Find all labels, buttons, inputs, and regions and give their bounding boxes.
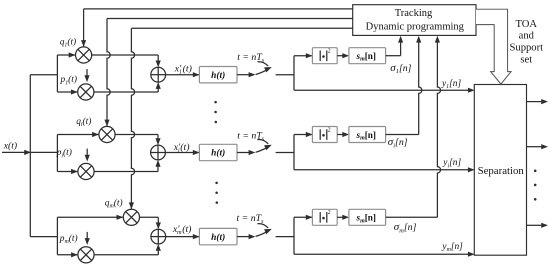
- node sampler output junction row 1: [293, 56, 295, 90]
- svg-text:Support: Support: [510, 42, 544, 53]
- wire: q_i output to summer top: [115, 135, 161, 146]
- svg-text:x′1(t): x′1(t): [174, 63, 192, 75]
- svg-text:2: 2: [328, 210, 331, 216]
- svg-text:Separation: Separation: [478, 165, 525, 177]
- svg-text:Tracking: Tracking: [395, 8, 433, 19]
- wire: p_1 output to summer bottom: [94, 82, 161, 92]
- wire: branch split vertical row m: [56, 217, 58, 255]
- wire: vertical drop into q multiplier row i: [104, 19, 110, 127]
- wire: Separation output: [527, 144, 549, 149]
- arrow p_i(t) control input (short down arrow): [85, 149, 90, 162]
- wire: into p_1 multiplier: [57, 89, 77, 94]
- node sampler output junction row i: [293, 135, 295, 170]
- svg-text:t = nTs: t = nTs: [237, 213, 265, 225]
- multiplier p_1 (circle with X): [78, 84, 94, 100]
- svg-text:x′i(t): x′i(t): [173, 142, 190, 154]
- block magnitude squared |.|^2 row m: [312, 209, 337, 225]
- wire: into q_i multiplier: [57, 132, 99, 137]
- ellipsis dots right of Separation: [534, 170, 537, 201]
- svg-text:2: 2: [328, 127, 331, 133]
- svg-text:qi(t): qi(t): [76, 116, 91, 128]
- svg-text:sm[n]: sm[n]: [356, 213, 376, 225]
- block magnitude squared |.|^2 row i: [312, 127, 337, 143]
- wire: |.|^2 to s_m[n] row i: [337, 132, 349, 137]
- block Tracking / Dynamic programming: [353, 5, 476, 36]
- svg-text:p1(t): p1(t): [60, 74, 78, 86]
- wire: into p_i multiplier: [57, 169, 78, 174]
- arrow p_1(t) control input (short down arrow): [84, 69, 89, 82]
- wire: into magnitude-squared block row m: [294, 215, 313, 220]
- arrow p_m(t) control input (short down arrow): [85, 232, 90, 245]
- wire: into q_m multiplier: [57, 215, 123, 220]
- wire: y_i[n] into Separation: [294, 167, 475, 172]
- multiplier p_m (circle with X): [78, 247, 94, 263]
- svg-text:y1[n]: y1[n]: [441, 79, 461, 90]
- wire: into p_m multiplier: [57, 252, 78, 257]
- svg-text:TOA: TOA: [516, 19, 538, 30]
- svg-text:pi(t): pi(t): [56, 147, 72, 159]
- svg-text:x(t): x(t): [3, 140, 17, 151]
- svg-text:h(t): h(t): [211, 148, 225, 159]
- svg-text:sm[n]: sm[n]: [356, 130, 376, 142]
- wire: input distribution bus: [29, 75, 31, 237]
- label TOA and Support set: [510, 19, 544, 65]
- svg-text:ym[n]: ym[n]: [441, 242, 463, 253]
- wire: Tracking output 2 horizontal run: [107, 18, 353, 20]
- block matched filter s_m[n] row m: [349, 209, 386, 225]
- summer row m (circle with +): [151, 229, 166, 244]
- svg-text:t = nTs: t = nTs: [237, 130, 265, 142]
- svg-text:σi[n]: σi[n]: [388, 136, 408, 149]
- svg-text:t = nTs: t = nTs: [237, 52, 265, 64]
- wire: bus branch row m: [30, 236, 57, 238]
- wire: Tracking output 3 horizontal run: [131, 27, 352, 29]
- summer row 1 (circle with +): [151, 67, 166, 82]
- wire: into magnitude-squared block row i: [294, 132, 313, 137]
- wire: bus branch row 1: [30, 74, 57, 76]
- svg-text:yi[n]: yi[n]: [442, 158, 461, 169]
- wire: branch split vertical row 1: [56, 55, 58, 92]
- svg-text:q1(t): q1(t): [60, 36, 76, 48]
- node x(t) input wire: [2, 150, 57, 155]
- wire: q_1 output to summer top: [92, 55, 161, 67]
- multiplier q_m (circle with X): [123, 209, 139, 225]
- ellipsis dots between row 1 and row i: [214, 101, 217, 123]
- svg-text:h(t): h(t): [211, 232, 225, 243]
- block Separation: [474, 85, 526, 256]
- ellipsis dots between row i and row m: [215, 182, 218, 204]
- wire: Tracking output 1 horizontal run: [84, 8, 353, 10]
- svg-text:2: 2: [328, 49, 331, 55]
- wire: sigma_m[n] up into Tracking: [386, 36, 441, 218]
- wire: vertical drop into q multiplier row 1: [81, 9, 86, 47]
- block magnitude squared |.|^2 row 1: [312, 48, 337, 64]
- sampler switch t=nT_s row 1: [237, 62, 294, 78]
- svg-text:x′m(t): x′m(t): [172, 224, 191, 236]
- wire: sigma_i[n] up into Tracking: [386, 36, 422, 135]
- wire: |.|^2 to s_m[n] row 1: [337, 53, 349, 58]
- svg-text:and: and: [519, 31, 535, 42]
- svg-text:σ1[n]: σ1[n]: [390, 62, 411, 75]
- wire: sigma_1[n] up into Tracking: [386, 36, 404, 56]
- multiplier q_1 (circle with X): [76, 47, 92, 63]
- wire: branch split vertical row i: [56, 135, 58, 172]
- svg-text:Dynamic programming: Dynamic programming: [366, 21, 465, 32]
- hollow arrow: TOA and Support set from Tracking to Separation: [476, 9, 511, 84]
- wire: y_1[n] into Separation: [294, 88, 475, 93]
- wire: vertical drop into q multiplier row m: [129, 28, 135, 209]
- sampler switch t=nT_s row m: [237, 224, 294, 240]
- svg-text:h(t): h(t): [211, 70, 225, 81]
- block h(t) row 1: [199, 67, 237, 83]
- summer row i (circle with +): [151, 145, 166, 160]
- wire: into q_1 multiplier: [57, 52, 75, 57]
- block h(t) row m: [199, 228, 237, 244]
- node sampler output junction row m: [293, 217, 295, 254]
- svg-text:sm[n]: sm[n]: [356, 51, 376, 63]
- block matched filter s_m[n] row 1: [349, 48, 386, 64]
- wire: summer output into h(t) row m: [166, 234, 200, 239]
- wire: Separation output: [527, 99, 549, 104]
- wire: Separation output: [527, 223, 549, 228]
- wire: summer output into h(t) row 1: [166, 72, 200, 77]
- multiplier q_i (circle with X): [99, 126, 115, 142]
- wire: into magnitude-squared block row 1: [294, 53, 313, 58]
- block h(t) row i: [199, 144, 237, 160]
- sampler switch t=nT_s row i: [237, 140, 294, 156]
- multiplier p_i (circle with X): [78, 163, 94, 179]
- wire: p_i output to summer bottom: [94, 160, 161, 172]
- block matched filter s_m[n] row i: [349, 127, 386, 143]
- svg-text:pm(t): pm(t): [59, 233, 78, 245]
- wire: y_m[n] into Separation: [294, 252, 475, 257]
- svg-text:set: set: [520, 55, 532, 66]
- wire: p_m output to summer bottom: [94, 244, 161, 255]
- wire: q_m output to summer top: [140, 217, 161, 229]
- svg-text:qm(t): qm(t): [105, 197, 123, 209]
- wire: summer output into h(t) row i: [165, 150, 199, 155]
- wire: |.|^2 to s_m[n] row m: [337, 215, 349, 220]
- svg-text:σm[n]: σm[n]: [394, 221, 417, 234]
